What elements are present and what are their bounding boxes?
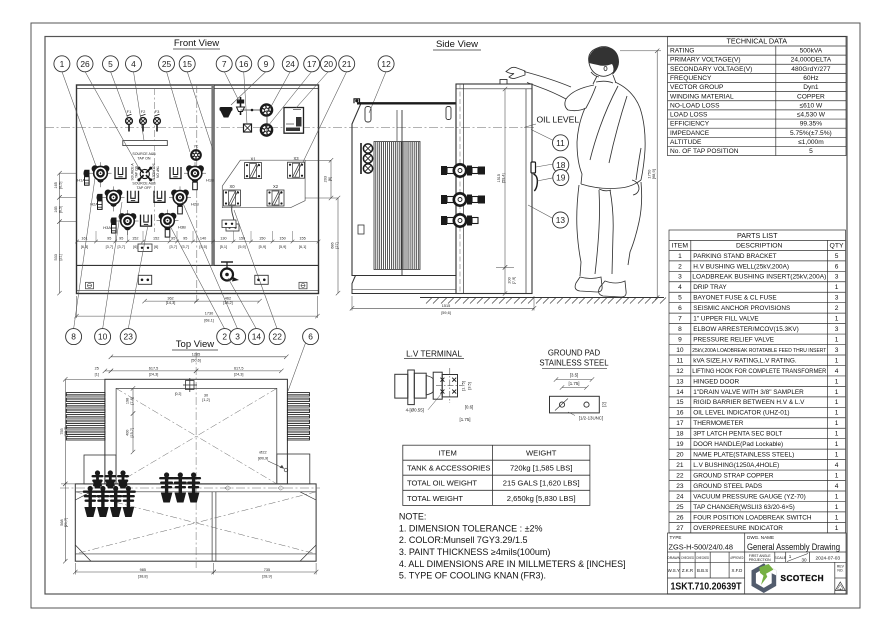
svg-text:26: 26 <box>676 514 684 521</box>
leader for balloon 7 <box>224 72 239 102</box>
leader for balloon 15 <box>187 72 213 151</box>
svg-text:kVA SIZE,H.V RATING,L.V RATING: kVA SIZE,H.V RATING,L.V RATING. <box>693 357 797 364</box>
svg-text:IMPEDANCE: IMPEDANCE <box>670 130 710 137</box>
svg-text:H2B: H2B <box>191 202 199 207</box>
LV pad X1 <box>245 157 262 179</box>
radiator center pipe <box>397 110 402 275</box>
svg-text:[3.5]: [3.5] <box>467 382 472 390</box>
balloon 9 <box>258 56 274 72</box>
svg-text:8: 8 <box>71 332 76 342</box>
leader balloon 13 <box>528 205 553 219</box>
svg-text:22: 22 <box>676 472 684 479</box>
jacking pad left <box>138 275 151 284</box>
svg-text:25: 25 <box>162 59 172 69</box>
svg-text:TOTAL WEIGHT: TOTAL WEIGHT <box>407 494 463 503</box>
svg-text:≤610 W: ≤610 W <box>800 102 823 109</box>
balloon 24 <box>282 56 298 72</box>
svg-text:[Ø0,9]: [Ø0,9] <box>258 457 268 461</box>
svg-text:[6,3]: [6,3] <box>81 245 88 249</box>
svg-text:6: 6 <box>308 332 313 342</box>
svg-text:1: 1 <box>835 452 839 459</box>
svg-text:F3: F3 <box>155 109 160 114</box>
ground pad small <box>138 244 152 252</box>
svg-text:1: 1 <box>835 389 839 396</box>
balloon 12 <box>378 56 394 72</box>
svg-text:[68,1]: [68,1] <box>204 319 214 323</box>
svg-text:19: 19 <box>676 441 684 448</box>
drain valve <box>221 262 239 282</box>
svg-text:[2]: [2] <box>602 402 607 407</box>
svg-text:21: 21 <box>676 462 684 469</box>
ground strap wire <box>226 206 239 231</box>
svg-text:BAYONET FUSE & CL FUSE: BAYONET FUSE & CL FUSE <box>693 295 776 302</box>
dim 30 <box>175 392 210 402</box>
svg-text:4: 4 <box>835 368 839 375</box>
balloon 7 <box>216 56 232 72</box>
svg-text:[7,9]: [7,9] <box>512 277 516 284</box>
svg-text:25kV,200A LOADBREAK ROTATABLE: 25kV,200A LOADBREAK ROTATABLE FEED THRU … <box>692 348 826 354</box>
svg-text:Dyn1: Dyn1 <box>803 84 819 91</box>
GROUND PAD title <box>539 349 609 369</box>
svg-text:B.B.S: B.B.S <box>697 568 708 573</box>
leader balloon 11 <box>531 130 553 141</box>
svg-text:X2: X2 <box>273 184 279 189</box>
svg-text:617,5: 617,5 <box>149 366 159 370</box>
technical data table <box>668 37 847 156</box>
lifting hook top detail <box>183 378 197 392</box>
svg-text:215 GALS [1,620 LBS]: 215 GALS [1,620 LBS] <box>503 479 580 488</box>
svg-text:23: 23 <box>124 332 134 342</box>
leader for balloon 17 <box>268 72 312 127</box>
front view vertical centerline <box>196 85 198 302</box>
balloon 8 <box>66 329 82 345</box>
front view tank outline <box>77 85 319 294</box>
balloon 6 <box>303 329 319 345</box>
leader for balloon 10 <box>103 202 122 329</box>
svg-text:PRESSURE RELIEF VALVE: PRESSURE RELIEF VALVE <box>693 336 774 343</box>
connecting line <box>241 109 264 112</box>
svg-text:PRIMARY VOLTAGE(V): PRIMARY VOLTAGE(V) <box>670 57 741 64</box>
tap position labels <box>131 152 160 190</box>
Front View title <box>173 38 220 49</box>
svg-text:617,5: 617,5 <box>234 366 244 370</box>
side view cabinet outline <box>456 84 532 294</box>
svg-text:6: 6 <box>678 305 682 312</box>
balloon 1 <box>54 56 70 72</box>
svg-text:[6,1]: [6,1] <box>299 245 306 249</box>
svg-text:6: 6 <box>835 263 839 270</box>
svg-text:[21,7]: [21,7] <box>64 518 68 528</box>
leader for balloon 5 <box>111 72 129 119</box>
top view radiator fins at x 66.3 <box>66 393 105 440</box>
svg-text:23: 23 <box>676 483 684 490</box>
title block frame <box>668 533 847 594</box>
svg-text:4. ALL DIMENSIONS ARE IN MILLM: 4. ALL DIMENSIONS ARE IN MILLMETERS & [I… <box>399 559 626 569</box>
balloon 3 <box>230 329 246 345</box>
lid diagonal centerlines <box>116 388 277 484</box>
oil level gauge box <box>244 124 252 132</box>
svg-text:VECTOR GROUP: VECTOR GROUP <box>670 84 724 91</box>
leader for balloon 21 <box>303 72 347 163</box>
jacking pad right <box>255 275 268 284</box>
svg-text:155: 155 <box>299 236 305 240</box>
balloon 17 <box>304 56 320 72</box>
svg-text:WEIGHT: WEIGHT <box>526 448 557 457</box>
svg-text:DOOR HANDLE(Pad Lockable): DOOR HANDLE(Pad Lockable) <box>693 441 783 448</box>
svg-text:1: 1 <box>835 493 839 500</box>
svg-text:EFFICIENCY: EFFICIENCY <box>670 121 710 128</box>
svg-text:[1]: [1] <box>95 373 99 377</box>
elbow arrester at y130 <box>261 124 272 135</box>
four position loadbreak switch <box>137 167 152 182</box>
front view left dimensions <box>54 171 77 295</box>
svg-text:SEISMIC ANCHOR PROVISIONS: SEISMIC ANCHOR PROVISIONS <box>693 305 790 312</box>
cabinet diagonal centerlines <box>75 492 316 554</box>
svg-text:1: 1 <box>835 336 839 343</box>
svg-text:13: 13 <box>676 378 684 385</box>
svg-text:19: 19 <box>556 173 566 183</box>
svg-text:1: 1 <box>835 441 839 448</box>
svg-text:[27]: [27] <box>335 242 339 248</box>
pressure relief valve <box>220 107 233 118</box>
cabinet corner gussets <box>75 492 316 561</box>
svg-text:4: 4 <box>835 462 839 469</box>
svg-text:95: 95 <box>171 236 175 240</box>
leader balloon 19 <box>537 178 553 181</box>
bushing H1B <box>184 162 206 190</box>
svg-text:3. PAINT THICKNESS ≥4mils(100: 3. PAINT THICKNESS ≥4mils(100um) <box>399 547 550 557</box>
svg-text:GROUND PAD: GROUND PAD <box>548 349 601 358</box>
svg-text:NO-LOAD LOSS: NO-LOAD LOSS <box>670 102 720 109</box>
balloon 23 <box>120 329 136 345</box>
svg-text:5. TYPE OF COOLING KNAN (FR3: 5. TYPE OF COOLING KNAN (FR3). <box>399 570 546 580</box>
svg-text:[3,7]: [3,7] <box>118 245 125 249</box>
leader for balloon 4 <box>134 72 145 141</box>
balloon 25 <box>159 56 175 72</box>
bayonet fuse F1 <box>126 109 133 132</box>
rigid barrier partition <box>213 85 215 265</box>
svg-text:27: 27 <box>676 525 684 532</box>
svg-text:5: 5 <box>678 295 682 302</box>
svg-text:[50,6]: [50,6] <box>191 359 201 363</box>
svg-text:99.35%: 99.35% <box>800 121 823 128</box>
svg-text:[5,9]: [5,9] <box>259 245 266 249</box>
svg-text:2. COLOR:Munsell 7GY3.29/1.5: 2. COLOR:Munsell 7GY3.29/1.5 <box>399 535 528 545</box>
svg-text:500kVA: 500kVA <box>800 48 823 55</box>
svg-text:COPPER: COPPER <box>797 93 825 100</box>
svg-text:ELBOW ARRESTER/MCOV(15.3KV): ELBOW ARRESTER/MCOV(15.3KV) <box>693 326 798 333</box>
balloon 13 <box>552 212 568 228</box>
svg-text:95: 95 <box>107 236 111 240</box>
parking stand bracket <box>128 191 139 203</box>
svg-text:L.V BUSHING(1250A,4HOLE): L.V BUSHING(1250A,4HOLE) <box>693 462 779 469</box>
svg-text:1285: 1285 <box>192 352 200 356</box>
LV cable compartment outline <box>222 160 305 208</box>
svg-text:[24,3]: [24,3] <box>149 373 159 377</box>
svg-text:DRIP TRAY: DRIP TRAY <box>693 284 727 291</box>
svg-text:No. OF TAP POSITION: No. OF TAP POSITION <box>670 148 739 155</box>
dim 1285 <box>109 352 289 362</box>
svg-text:720kg [1,585 LBS]: 720kg [1,585 LBS] <box>510 464 573 473</box>
drain valve and sampler <box>358 143 373 234</box>
svg-text:L.V TERMINAL: L.V TERMINAL <box>406 350 462 359</box>
top view interior dims <box>126 386 136 454</box>
svg-text:[5,5]: [5,5] <box>199 245 206 249</box>
bushing H2B <box>169 186 191 214</box>
svg-text:DRAWN: DRAWN <box>667 556 680 560</box>
balloon 19 <box>553 170 569 186</box>
svg-text:H3B: H3B <box>178 225 186 230</box>
svg-text:LOAD LOSS: LOAD LOSS <box>670 112 708 119</box>
seismic anchor right <box>299 282 307 289</box>
svg-text:2: 2 <box>222 332 227 342</box>
svg-text:F2: F2 <box>141 109 146 114</box>
svg-text:2,650kg [5,830 LBS]: 2,650kg [5,830 LBS] <box>507 494 576 503</box>
svg-text:CHECKED: CHECKED <box>696 556 709 560</box>
svg-text:OIL LEVEL: OIL LEVEL <box>537 115 580 125</box>
svg-text:4: 4 <box>835 483 839 490</box>
svg-text:[1.75]: [1.75] <box>461 381 466 391</box>
svg-text:7C: 7C <box>194 145 199 149</box>
parking stand bracket <box>170 167 181 179</box>
svg-text:14: 14 <box>676 389 684 396</box>
LV pad X3 <box>288 156 305 178</box>
top view horizontal centerline <box>60 486 320 490</box>
ground line with hatching <box>420 298 666 304</box>
parking stand bracket <box>154 191 165 203</box>
balloon 26 <box>77 56 93 72</box>
svg-text:TOTAL OIL WEIGHT: TOTAL OIL WEIGHT <box>407 479 477 488</box>
svg-text:ITEM: ITEM <box>672 243 689 250</box>
horizontal oil-level centerline across front and side view <box>45 126 534 128</box>
seismic anchor left <box>86 282 94 289</box>
side bushing cluster 3 <box>441 214 478 226</box>
svg-text:15: 15 <box>183 59 193 69</box>
svg-text:9: 9 <box>264 59 269 69</box>
svg-text:TAP ON: TAP ON <box>137 157 150 161</box>
leader for balloon 24 <box>268 72 290 113</box>
svg-text:1730: 1730 <box>205 312 213 316</box>
svg-text:≤4,530 W: ≤4,530 W <box>797 112 826 119</box>
dimension chain row <box>75 236 320 249</box>
svg-text:TYPE: TYPE <box>670 535 682 540</box>
balloon 5 <box>103 56 119 72</box>
tap changer handle 7C <box>191 145 201 160</box>
svg-text:F1: F1 <box>127 109 132 114</box>
bayonet fuse F2 <box>140 109 147 132</box>
balloon 21 <box>339 56 355 72</box>
svg-text:[29,7]: [29,7] <box>64 427 68 437</box>
svg-text:5: 5 <box>809 148 813 155</box>
svg-text:10: 10 <box>98 332 108 342</box>
svg-text:1SKT.710.20639T: 1SKT.710.20639T <box>671 582 742 593</box>
svg-text:≤1,000m: ≤1,000m <box>798 139 824 146</box>
svg-text:X0: X0 <box>229 184 235 189</box>
front view right dimensions <box>305 158 340 295</box>
svg-text:1: 1 <box>835 357 839 364</box>
top view tank outline <box>105 379 288 484</box>
HV bushings group top view <box>159 472 201 502</box>
weight table <box>403 445 590 505</box>
fill valve on cabinet top <box>500 80 507 85</box>
svg-text:THERMOMETER: THERMOMETER <box>693 420 743 427</box>
ground pad small2 <box>222 220 236 228</box>
svg-text:985: 985 <box>140 568 146 572</box>
svg-text:1: 1 <box>835 378 839 385</box>
svg-text:130: 130 <box>220 236 226 240</box>
side bushing cluster 1 <box>441 164 485 176</box>
svg-text:3: 3 <box>835 295 839 302</box>
svg-text:SCALE: SCALE <box>774 556 786 560</box>
balloon 4 <box>126 56 142 72</box>
LV terminal drawing <box>395 368 462 405</box>
svg-text:TAP CHANGER(WSLII3 63/20-6×5): TAP CHANGER(WSLII3 63/20-6×5) <box>693 504 795 511</box>
svg-text:95: 95 <box>119 236 123 240</box>
top view cabinet outline <box>75 484 316 561</box>
svg-text:15: 15 <box>676 399 684 406</box>
name plate <box>284 108 304 134</box>
svg-text:1: 1 <box>835 399 839 406</box>
svg-text:12: 12 <box>381 59 391 69</box>
bushing H2A <box>97 186 125 211</box>
svg-text:3PT LATCH PENTA SEC BOLT: 3PT LATCH PENTA SEC BOLT <box>693 431 782 438</box>
door handle <box>531 162 537 191</box>
svg-text:General Assembly Drawing: General Assembly Drawing <box>747 542 840 553</box>
svg-text:[0.6]: [0.6] <box>465 405 474 410</box>
svg-text:[5,9]: [5,9] <box>279 245 286 249</box>
svg-text:1: 1 <box>835 420 839 427</box>
dim 25 / 617.5 row <box>95 366 284 376</box>
svg-text:GROUND STRAP COPPER: GROUND STRAP COPPER <box>693 472 774 479</box>
LV pad X2 <box>267 184 284 206</box>
svg-text:1: 1 <box>835 525 839 532</box>
SCOTECH logo <box>752 563 825 593</box>
bayonet fuse F3 <box>154 109 161 132</box>
leader for balloon 25 <box>167 72 191 153</box>
svg-text:3: 3 <box>678 274 682 281</box>
dia 22 hole label <box>258 451 288 472</box>
notes text <box>399 512 626 581</box>
svg-text:[3,7]: [3,7] <box>182 245 189 249</box>
svg-text:ALTITUDE: ALTITUDE <box>670 139 702 146</box>
svg-text:3: 3 <box>835 274 839 281</box>
svg-text:[15,7]: [15,7] <box>130 428 134 438</box>
svg-text:[5,9]: [5,9] <box>238 245 245 249</box>
svg-text:[3.5]: [3.5] <box>570 373 579 378</box>
svg-text:17: 17 <box>676 420 684 427</box>
svg-text:21: 21 <box>342 59 352 69</box>
svg-text:H3A: H3A <box>103 225 111 230</box>
svg-text:DESCRIPTION: DESCRIPTION <box>736 243 783 250</box>
bushing H1A <box>84 162 112 187</box>
parking stand bracket <box>115 167 126 179</box>
leader for balloon 1 <box>62 72 96 167</box>
elbow arrester at y110 <box>261 104 272 115</box>
leader for balloon 22 <box>234 210 277 329</box>
svg-text:20: 20 <box>676 452 684 459</box>
svg-text:PARKING STAND BRACKET: PARKING STAND BRACKET <box>693 253 776 260</box>
svg-text:1: 1 <box>835 472 839 479</box>
dim 1750 man height <box>620 49 661 300</box>
svg-text:24: 24 <box>286 59 296 69</box>
svg-text:DWG. NAME: DWG. NAME <box>747 535 774 540</box>
svg-text:RATING: RATING <box>670 48 694 55</box>
svg-text:H1B: H1B <box>206 178 214 183</box>
svg-text:FREQUENCY: FREQUENCY <box>670 75 712 82</box>
svg-text:[14,3]: [14,3] <box>166 301 176 305</box>
svg-text:X.F.D: X.F.D <box>732 568 743 573</box>
balloon 10 <box>95 329 111 345</box>
svg-text:H.V BUSHING WELL(25kV,200A): H.V BUSHING WELL(25kV,200A) <box>693 263 789 270</box>
svg-text:150: 150 <box>279 236 285 240</box>
svg-text:TECHNICAL DATA: TECHNICAL DATA <box>726 37 787 46</box>
svg-text:[59,6]: [59,6] <box>441 311 451 315</box>
svg-text:25: 25 <box>95 366 99 370</box>
svg-text:1: 1 <box>835 316 839 323</box>
svg-text:3: 3 <box>235 332 240 342</box>
dim 1515 <box>496 87 516 296</box>
balloon 22 <box>269 329 285 345</box>
balloon 2 <box>217 329 233 345</box>
svg-text:1. DIMENSION TOLERANCE : ±2%: 1. DIMENSION TOLERANCE : ±2% <box>399 523 543 533</box>
svg-text:1: 1 <box>789 554 792 559</box>
dim 362 / 462 <box>142 297 261 306</box>
svg-text:PROJECTION: PROJECTION <box>749 558 771 562</box>
balloon 11 <box>553 135 569 151</box>
svg-text:5.75%(±7.5%): 5.75%(±7.5%) <box>790 130 832 137</box>
svg-text:LIFTING HOOK FOR COMPLETE TRAN: LIFTING HOOK FOR COMPLETE TRANSFORMER <box>692 368 826 375</box>
svg-text:OIL LEVEL INDICATOR (UHZ-01): OIL LEVEL INDICATOR (UHZ-01) <box>693 410 789 417</box>
leader balloon 18 <box>536 164 553 167</box>
upper fill valve <box>237 97 245 115</box>
radiator bank <box>374 142 420 270</box>
svg-text:TAP ON: TAP ON <box>155 166 159 179</box>
svg-text:Z.K.R: Z.K.R <box>682 568 693 573</box>
svg-text:16: 16 <box>239 59 249 69</box>
svg-text:150: 150 <box>259 236 265 240</box>
lid slots <box>365 107 451 123</box>
svg-text:5: 5 <box>835 253 839 260</box>
svg-text:[3,7]: [3,7] <box>170 245 177 249</box>
svg-text:[6,5]: [6,5] <box>58 206 62 213</box>
svg-text:12: 12 <box>676 368 684 375</box>
dim 985 735 <box>73 563 318 578</box>
svg-text:24: 24 <box>676 493 684 500</box>
svg-text:OVERPREESURE INDICATOR: OVERPREESURE INDICATOR <box>693 525 783 532</box>
ground pad drawing <box>550 396 600 413</box>
balloon 18 <box>553 157 569 173</box>
svg-text:480GrdY/277: 480GrdY/277 <box>791 66 831 73</box>
svg-text:362: 362 <box>167 297 173 301</box>
svg-text:SCOTECH: SCOTECH <box>781 574 825 583</box>
svg-text:H1A: H1A <box>77 178 85 183</box>
svg-text:1" UPPER FILL VALVE: 1" UPPER FILL VALVE <box>693 316 758 323</box>
leader for balloon 12 <box>369 72 386 114</box>
svg-text:[3,7]: [3,7] <box>106 245 113 249</box>
man figure <box>506 47 645 298</box>
parking stand bracket <box>141 215 152 227</box>
tap changer bar <box>123 141 168 146</box>
revision triangle symbol <box>835 582 845 591</box>
leader for balloon 14 <box>228 278 256 329</box>
svg-text:30: 30 <box>204 394 208 398</box>
svg-text:1: 1 <box>678 253 682 260</box>
svg-text:152: 152 <box>153 236 159 240</box>
svg-text:STAINLESS STEEL: STAINLESS STEEL <box>539 359 609 368</box>
svg-text:QTY: QTY <box>830 243 844 250</box>
OIL LEVEL label <box>524 115 579 128</box>
svg-text:1: 1 <box>60 59 65 69</box>
